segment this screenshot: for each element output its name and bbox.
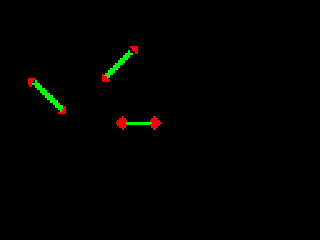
arrow A head 1 (red, up-left tip) [28, 78, 36, 87]
arrow B head 2 (red, up-right tip) [130, 46, 138, 54]
arrow B shaft (green) [104, 50, 133, 79]
arrow B head 1 (red, down-left tip) [102, 74, 110, 82]
arrow C head right (red) [150, 116, 162, 130]
arrow C shaft (green) [126, 122, 152, 125]
arrow A shaft (green) [32, 80, 64, 112]
arrow C head left (red) [116, 116, 127, 130]
black canvas background [0, 0, 200, 200]
arrow A head 2 (red, down-right tip) [58, 106, 66, 114]
